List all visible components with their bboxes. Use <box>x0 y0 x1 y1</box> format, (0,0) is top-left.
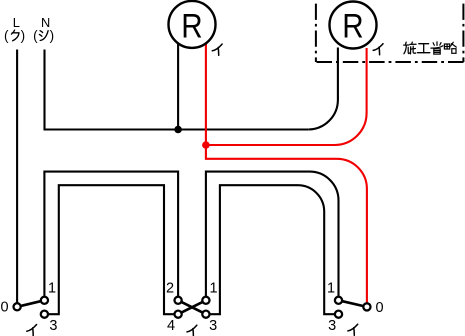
label 略 glyph <box>444 42 456 53</box>
lamp R2 circle <box>330 2 377 49</box>
wire loop S2-1 to S3-1 (outer right loop, rounded right corner) <box>206 172 339 297</box>
svg-text:1: 1 <box>48 280 56 296</box>
switch S3 terminal 0 circle <box>363 303 370 310</box>
node junction dot red <box>202 141 210 149</box>
wire loop S1-1 to S2-2 (outer left loop) <box>44 172 178 297</box>
label 工 glyph <box>418 44 430 53</box>
node junction dot neutral <box>174 126 182 134</box>
switch S3 terminal 3 circle <box>335 311 342 318</box>
wire red from junction down then right to S3 terminal 0 (rounded corner down) <box>206 145 367 303</box>
wire red horizontal from junction to lamp R2 live (rounded corner up) <box>206 48 367 145</box>
label ク glyph <box>11 30 19 41</box>
svg-text:3: 3 <box>49 318 57 334</box>
svg-text:1: 1 <box>327 281 335 297</box>
svg-text:0: 0 <box>376 300 384 316</box>
boundary 施工省略 dash-dot box <box>315 4 317 62</box>
svg-text:3: 3 <box>209 318 217 334</box>
svg-text:(: ( <box>33 28 38 43</box>
label イ for lamp R2 <box>373 44 383 55</box>
svg-text:2: 2 <box>166 280 174 296</box>
wire lamp R1 neutral drop to junction <box>177 44 179 130</box>
switch S3 blade 1-0 <box>339 300 367 307</box>
svg-text:): ) <box>21 28 26 43</box>
switch S1 terminal 1 circle <box>41 297 48 304</box>
svg-text:4: 4 <box>167 318 175 334</box>
wire neutral rises to lamp R2 (rounded corner) <box>308 48 338 130</box>
svg-text:(: ( <box>4 28 9 43</box>
switch S1 blade 0-1 <box>17 300 44 307</box>
switch S2 terminal 4 circle <box>175 311 182 318</box>
switch S2 terminal 2 circle <box>175 297 182 304</box>
svg-text:): ) <box>50 28 55 43</box>
lamp R1 circle <box>169 1 216 48</box>
label イ for lamp R1 <box>212 44 222 55</box>
switch S1 terminal 3 circle <box>41 311 48 318</box>
wire N vertical then main neutral horizontal to lamps <box>45 50 309 130</box>
svg-text:1: 1 <box>209 280 217 296</box>
label イ for S1 <box>27 325 37 336</box>
switch S2 terminal 3 circle <box>202 311 209 318</box>
wire loop S2-3 to S3-3 (inner right loop, rounded right corner) <box>210 185 336 314</box>
svg-text:0: 0 <box>0 300 8 316</box>
label 施 glyph <box>404 42 416 54</box>
svg-text:R: R <box>181 7 202 45</box>
svg-text:L: L <box>13 15 20 30</box>
switch S2 blade 2-3 <box>178 300 206 314</box>
wire loop S1-3 to S2-4 (inner left loop) <box>48 185 175 314</box>
label シ glyph <box>39 31 48 41</box>
switch S2 terminal 1 circle <box>202 297 209 304</box>
switch S3 terminal 1 circle <box>335 297 342 304</box>
label イ for S2 <box>187 325 197 336</box>
label 省 glyph <box>431 42 443 54</box>
wire L vertical from source to switch S1 terminal 0 <box>16 50 18 304</box>
svg-text:R: R <box>342 8 363 46</box>
wire red lamp R1 live drop to red junction <box>205 44 207 145</box>
label イ for S3 <box>348 324 358 335</box>
switch S2 blade 1-4 <box>178 300 206 314</box>
svg-text:3: 3 <box>328 318 336 334</box>
switch S1 terminal 0 circle <box>14 303 21 310</box>
